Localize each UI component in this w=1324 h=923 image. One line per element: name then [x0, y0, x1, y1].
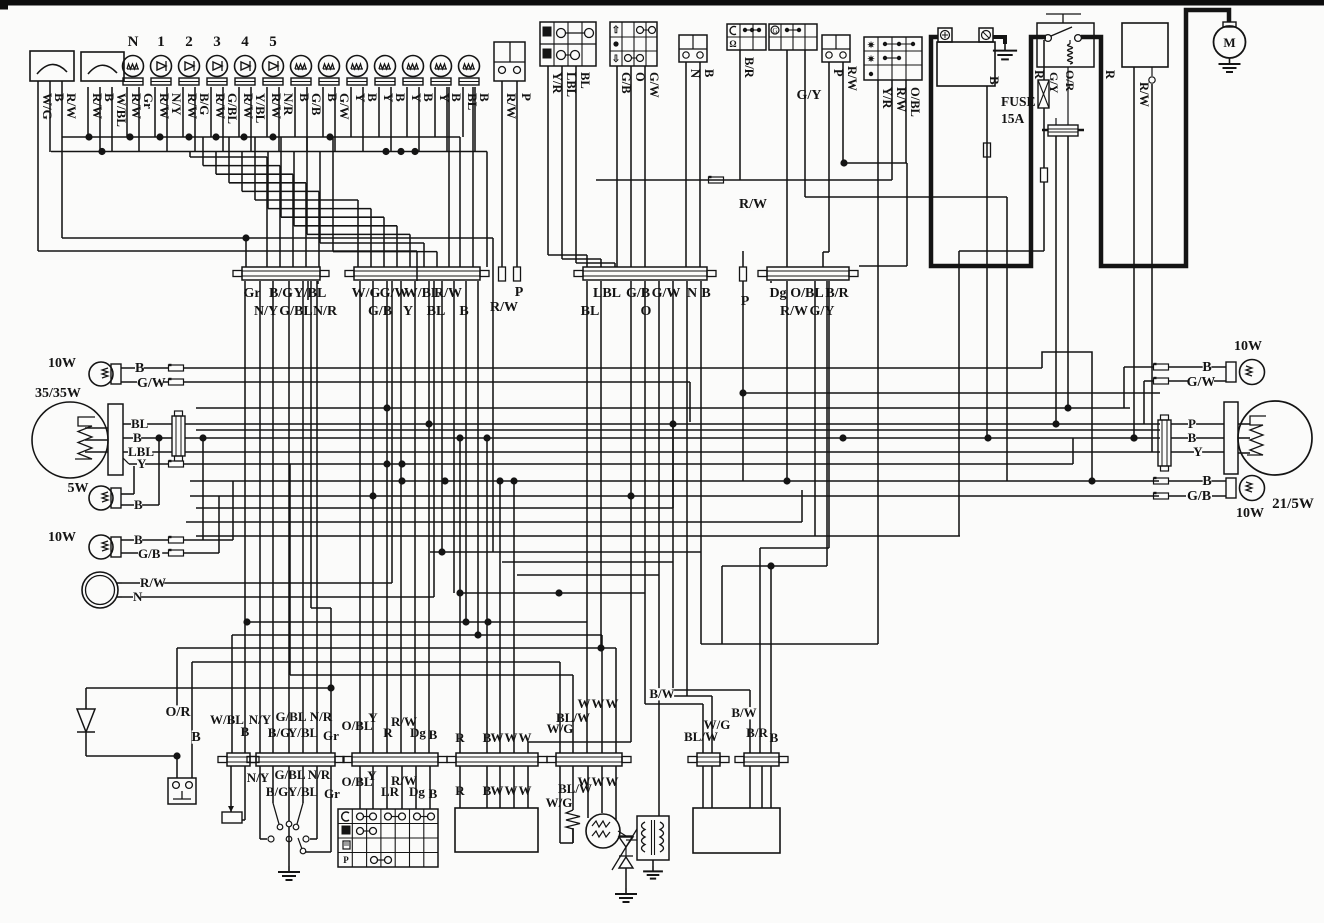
svg-text:B: B [393, 93, 408, 102]
svg-text:B/R: B/R [746, 725, 768, 740]
svg-text:P: P [741, 294, 750, 309]
svg-text:B: B [1188, 430, 1197, 445]
svg-text:Y: Y [403, 304, 413, 319]
svg-text:P: P [515, 285, 524, 300]
svg-text:R: R [455, 730, 465, 745]
svg-text:B: B [477, 93, 492, 102]
svg-text:G/BL: G/BL [225, 93, 240, 124]
svg-text:R/W: R/W [64, 93, 79, 119]
svg-text:Y: Y [137, 456, 147, 471]
svg-text:B: B [429, 727, 438, 742]
svg-text:W/G: W/G [547, 721, 574, 736]
svg-text:N/R: N/R [281, 93, 296, 116]
svg-text:BL/W: BL/W [684, 729, 718, 744]
svg-text:O/R: O/R [1063, 70, 1077, 92]
svg-text:M: M [1223, 35, 1235, 50]
svg-text:W: W [491, 730, 504, 745]
svg-text:O/BL: O/BL [908, 87, 922, 117]
svg-text:B: B [701, 286, 710, 301]
svg-text:P: P [1188, 416, 1196, 431]
svg-text:B/G: B/G [197, 93, 212, 115]
svg-text:G/BL: G/BL [275, 709, 306, 724]
svg-text:N/Y: N/Y [247, 770, 270, 785]
svg-text:P: P [519, 93, 534, 101]
svg-text:B/G: B/G [268, 725, 290, 740]
svg-text:Y/BL: Y/BL [288, 725, 319, 740]
svg-text:N/Y: N/Y [169, 93, 184, 116]
svg-text:W: W [592, 696, 605, 711]
svg-text:B: B [134, 532, 143, 547]
svg-text:B: B [134, 497, 143, 512]
svg-text:Gr: Gr [243, 286, 260, 301]
svg-text:R/W: R/W [739, 197, 767, 212]
svg-text:Dg: Dg [769, 286, 786, 301]
svg-text:LBL: LBL [593, 286, 621, 301]
svg-text:✷: ✷ [867, 40, 875, 50]
svg-text:N: N [128, 34, 139, 50]
svg-text:G/W: G/W [1187, 375, 1216, 390]
svg-text:B: B [702, 69, 716, 77]
svg-text:15A: 15A [1001, 111, 1025, 126]
svg-text:Y: Y [1193, 444, 1203, 459]
svg-text:P: P [343, 855, 349, 865]
svg-text:Gr: Gr [324, 786, 340, 801]
svg-text:G/W: G/W [337, 93, 352, 120]
svg-text:B/W: B/W [649, 686, 674, 701]
svg-text:G/W: G/W [137, 376, 166, 391]
svg-text:W: W [491, 783, 504, 798]
svg-text:B: B [449, 93, 464, 102]
svg-text:R/W: R/W [140, 575, 166, 590]
svg-text:Gr: Gr [323, 728, 339, 743]
svg-text:FUSE: FUSE [1001, 94, 1036, 109]
svg-text:R: R [1103, 70, 1117, 80]
svg-text:B: B [191, 730, 200, 745]
svg-text:O/BL: O/BL [790, 286, 823, 301]
svg-text:B/G: B/G [266, 784, 288, 799]
svg-text:10W: 10W [1236, 506, 1264, 521]
svg-text:W/BL: W/BL [210, 712, 244, 727]
svg-text:B/W: B/W [731, 705, 756, 720]
svg-text:10W: 10W [48, 530, 76, 545]
svg-text:G/B: G/B [138, 546, 161, 561]
svg-text:10W: 10W [1234, 339, 1262, 354]
svg-text:⇧: ⇧ [612, 25, 620, 36]
svg-text:G/W: G/W [652, 286, 681, 301]
svg-text:W/G: W/G [352, 286, 381, 301]
svg-text:N: N [133, 589, 143, 604]
svg-text:G/B: G/B [626, 286, 650, 301]
svg-text:G/B: G/B [1187, 489, 1211, 504]
svg-text:Ω: Ω [729, 39, 736, 49]
svg-text:B/R: B/R [742, 57, 756, 79]
svg-text:2: 2 [185, 34, 193, 50]
svg-text:G: G [772, 27, 777, 35]
svg-text:4: 4 [241, 34, 249, 50]
svg-text:BL: BL [131, 416, 149, 431]
svg-text:N/Y: N/Y [254, 304, 278, 319]
svg-text:⇩: ⇩ [612, 54, 620, 65]
svg-text:Y/BL: Y/BL [253, 93, 268, 124]
svg-text:21/5W: 21/5W [1272, 496, 1314, 512]
svg-text:B: B [365, 93, 380, 102]
svg-text:N/R: N/R [308, 767, 331, 782]
svg-text:5: 5 [269, 34, 277, 50]
svg-text:G/Y: G/Y [810, 304, 835, 319]
svg-text:10W: 10W [48, 356, 76, 371]
svg-text:W: W [606, 696, 619, 711]
svg-text:1: 1 [157, 34, 165, 50]
svg-text:B: B [987, 76, 1002, 85]
svg-text:5W: 5W [68, 481, 89, 496]
svg-text:Dg: Dg [410, 725, 426, 740]
svg-text:B: B [135, 361, 144, 376]
svg-text:R/W: R/W [490, 300, 518, 315]
svg-text:Gr: Gr [141, 93, 156, 109]
svg-text:G/B: G/B [309, 93, 324, 116]
svg-text:35/35W: 35/35W [35, 386, 81, 401]
svg-text:Y/BL: Y/BL [294, 286, 327, 301]
svg-text:W: W [519, 730, 532, 745]
svg-text:G/BL: G/BL [279, 304, 312, 319]
svg-text:R/W: R/W [845, 66, 859, 92]
svg-text:3: 3 [213, 34, 221, 50]
svg-text:B: B [133, 430, 142, 445]
svg-text:B: B [770, 730, 779, 745]
svg-text:R/W: R/W [1137, 82, 1151, 108]
svg-text:G/W: G/W [647, 72, 661, 98]
svg-text:BL: BL [578, 72, 592, 89]
svg-text:O: O [641, 304, 652, 319]
svg-text:B: B [1202, 360, 1211, 375]
svg-text:N: N [687, 286, 697, 301]
svg-text:G/Y: G/Y [797, 88, 822, 103]
svg-text:N/R: N/R [310, 709, 333, 724]
svg-text:W: W [519, 783, 532, 798]
svg-text:Dg: Dg [409, 784, 425, 799]
svg-text:R/W: R/W [780, 304, 808, 319]
svg-text:BL: BL [581, 304, 600, 319]
svg-text:Y: Y [368, 710, 378, 725]
svg-text:G/B: G/B [368, 304, 392, 319]
svg-text:W: W [505, 783, 518, 798]
svg-text:G/BL: G/BL [274, 767, 305, 782]
svg-text:W: W [505, 730, 518, 745]
svg-text:✷: ✷ [867, 54, 875, 64]
svg-text:B: B [1202, 474, 1211, 489]
svg-text:B: B [459, 304, 468, 319]
svg-text:W/G: W/G [546, 795, 573, 810]
svg-text:B: B [421, 93, 436, 102]
svg-text:R/W: R/W [434, 286, 462, 301]
svg-text:W: W [578, 696, 591, 711]
svg-text:O/R: O/R [166, 705, 192, 720]
